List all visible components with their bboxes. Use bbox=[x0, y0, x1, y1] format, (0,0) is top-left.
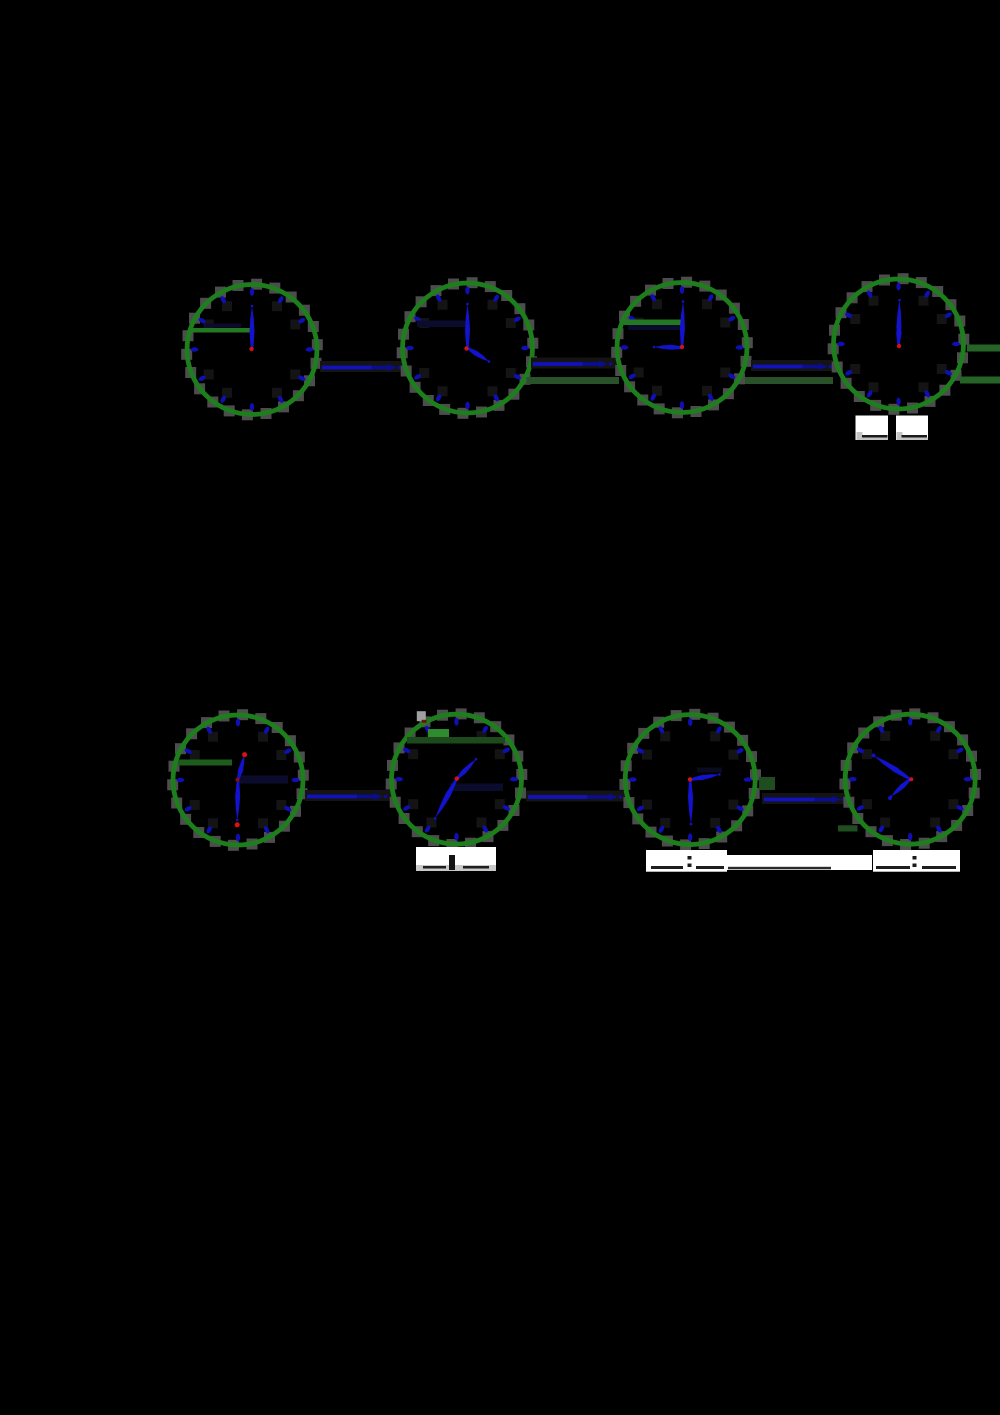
clock 2 hour hand bbox=[467, 347, 489, 362]
clock 3 green bar bbox=[624, 320, 683, 326]
clock 5 navy bar bbox=[238, 776, 289, 784]
clock 7 minute hand (down) bbox=[688, 780, 693, 824]
answer box under clock 6 bbox=[416, 864, 496, 871]
answer box 1 under clock 4 bbox=[856, 416, 889, 441]
arrow 3 bbox=[751, 360, 838, 371]
green band left of clock 8 bbox=[838, 825, 858, 831]
clock 5 hand up-right bbox=[237, 755, 245, 781]
clock 3 navy bar bbox=[628, 325, 681, 330]
arrow 2 bbox=[531, 358, 618, 369]
clock 8 hand down-left bbox=[891, 778, 911, 796]
clock 1 (9:00) bbox=[181, 279, 323, 421]
answer box under clock 7 bbox=[646, 868, 727, 872]
arrow 4 bbox=[305, 790, 393, 801]
clock 2 (4:00) bbox=[397, 277, 539, 419]
clock 3 hour hand bbox=[654, 345, 682, 350]
arrow 1 bbox=[320, 361, 407, 372]
clock 7 center dot bbox=[688, 777, 692, 781]
clock 1 minute hand bbox=[250, 306, 255, 350]
clock 4 center dot bbox=[897, 344, 901, 348]
green band between clock3 and clock4 bbox=[745, 377, 833, 384]
clock 6 gray tile top-left bbox=[417, 711, 426, 721]
clock 5 hand down bbox=[235, 780, 240, 820]
clock 8 hand up-left bbox=[874, 756, 911, 781]
clock 8 bbox=[839, 708, 981, 850]
clock 8 center dot bbox=[909, 777, 913, 781]
clock 6 dark green band bbox=[407, 737, 505, 744]
answer box under clock 8 bbox=[873, 868, 960, 872]
clock 6 bright green block bbox=[428, 729, 449, 737]
clock 1 hour hand (green bar at 9) bbox=[192, 328, 253, 333]
clock 5 center dot bbox=[236, 778, 240, 782]
clock 4 (12:00) bbox=[828, 273, 970, 415]
green band right of clock4 lower bbox=[960, 377, 1000, 384]
clock 6 hour hand (up-right) bbox=[456, 759, 476, 780]
clock 1 center dot bbox=[249, 347, 253, 351]
clock 6 minute hand (down-left) bbox=[435, 779, 457, 819]
green band between clock2 and clock3 bbox=[527, 377, 620, 384]
clock 6 center dot bbox=[455, 776, 459, 780]
green band right of clock4 upper bbox=[967, 345, 1000, 352]
clock 3 minute hand bbox=[680, 302, 685, 348]
clock 3 (9:00) bbox=[611, 277, 753, 419]
clock 5 bbox=[167, 709, 309, 851]
green band right of clock 7 bbox=[759, 777, 775, 790]
clock 7 bbox=[619, 709, 761, 851]
arrow 6 bbox=[762, 793, 851, 804]
arrow 5 bbox=[526, 791, 628, 802]
clock 6 bbox=[386, 708, 528, 850]
clock 3 center dot bbox=[680, 345, 684, 349]
clock 2 navy bar bbox=[417, 321, 467, 328]
white strip between boxes bbox=[727, 855, 872, 870]
clock 4 hour hand bbox=[896, 318, 901, 344]
clock 2 minute hand bbox=[465, 304, 470, 348]
clock 2 center dot bbox=[464, 346, 468, 350]
clock 5 green bar bbox=[178, 760, 232, 766]
clock 7 hour hand (right) bbox=[690, 774, 719, 781]
clock 4 minute hand bbox=[896, 300, 901, 344]
clock 1 navy bar bbox=[205, 324, 241, 328]
clock 7 faint navy bar bbox=[697, 768, 722, 773]
answer box 2 under clock 4 bbox=[896, 416, 928, 441]
clock 6 navy bar bbox=[451, 784, 504, 792]
